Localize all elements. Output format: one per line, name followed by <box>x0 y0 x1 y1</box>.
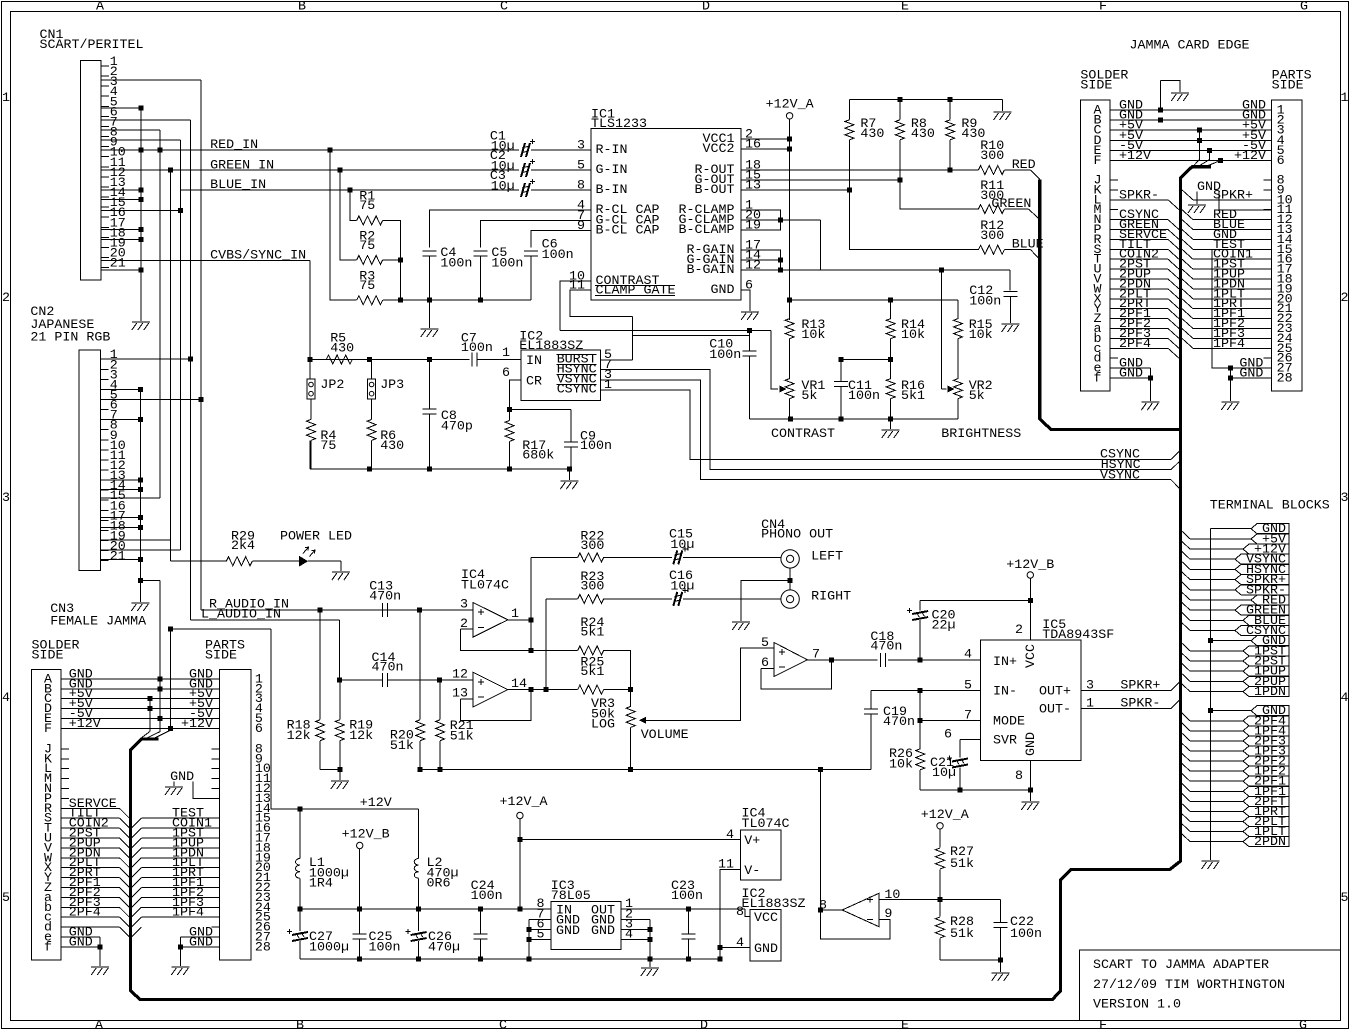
capacitor C7 <box>472 353 477 367</box>
connector CN3 parts side body <box>220 670 251 961</box>
wire +12V riser from CN3 <box>170 629 172 730</box>
wire B-OUT drop <box>849 190 978 250</box>
wire BLUE tap to R1 <box>350 190 357 220</box>
wire IC2 GND pin <box>720 947 750 949</box>
ground CN4 <box>732 622 750 630</box>
wire R2 to common <box>383 259 401 261</box>
wire C7 to IC2 pin1 <box>477 359 521 361</box>
svg-text:GND: GND <box>1024 732 1039 756</box>
wire C21 bottom <box>959 768 961 791</box>
svg-text:51k: 51k <box>390 739 414 754</box>
op-amp IC4C <box>774 643 807 677</box>
svg-text:CR: CR <box>526 375 542 390</box>
svg-text:9: 9 <box>577 219 585 234</box>
svg-text:GND: GND <box>711 283 735 298</box>
svg-text:3: 3 <box>1341 491 1349 506</box>
wire JAMMA row T COIN2 <box>1110 258 1168 260</box>
svg-text:E: E <box>901 1018 909 1030</box>
wire CN1 pin7 <box>101 129 160 131</box>
wire C20 bottom <box>919 620 921 660</box>
wire C19 IN- row <box>871 690 980 692</box>
wire JAMMA row C/3 +5V <box>1110 129 1271 131</box>
wire clamp-cap common row <box>383 299 531 301</box>
wire CN3 row T COIN2 <box>61 827 119 829</box>
wire C18 to IN+ <box>888 659 980 661</box>
svg-text:300: 300 <box>980 149 1004 164</box>
terminal block VSYNC <box>1235 554 1289 564</box>
resistor R20 <box>419 610 421 720</box>
inductor L2 <box>414 859 419 879</box>
wire JAMMA row W 2PDN <box>1110 288 1168 290</box>
wire IC4A feedback <box>460 629 531 650</box>
wire R16 bottom <box>890 398 892 419</box>
svg-text:TLS1233: TLS1233 <box>591 117 647 132</box>
wire JAMMA row Y 2PRT <box>1110 308 1168 310</box>
wire JAMMA row 1PF3 <box>1182 329 1193 339</box>
wire C14 row <box>340 679 383 681</box>
svg-text:B-OUT: B-OUT <box>695 183 735 198</box>
capacitor C9 <box>570 410 572 442</box>
terminal block 1PLT <box>1243 827 1289 837</box>
ground CN2 bus <box>131 603 149 611</box>
wire C4 bottom <box>429 256 431 300</box>
svg-text:5k1: 5k1 <box>580 626 604 641</box>
wire R-CLAMP tie <box>741 210 780 230</box>
capacitor C26 <box>418 909 420 931</box>
capacitor C13 <box>382 603 387 617</box>
svg-text:1: 1 <box>502 346 510 361</box>
svg-text:100n: 100n <box>969 295 1001 310</box>
wire CN3 row f GND <box>61 946 100 948</box>
wire JAMMA +5V tie <box>1199 130 1201 159</box>
JAMMA stub rows parts side <box>1264 179 1272 181</box>
wire contrast bottom rail <box>749 418 958 420</box>
svg-text:470n: 470n <box>369 590 401 605</box>
wire CN3 row 15 TEST <box>132 818 142 828</box>
capacitor C22 <box>1000 899 1002 922</box>
potentiometer VR1 <box>785 379 794 399</box>
wire audio bias rail <box>420 769 871 771</box>
wire CN1 pin6 audio-L <box>101 119 191 121</box>
terminal block SPKR+ <box>1235 575 1289 585</box>
svg-text:SVR: SVR <box>993 733 1017 748</box>
wire IC3 right gnd pins <box>621 918 650 920</box>
wire JAMMA row 1PUP <box>1182 269 1193 279</box>
wire L2 bottom <box>418 878 420 909</box>
wire CN2 pin1 to audio-R bus <box>101 358 191 360</box>
wire JAMMA row F/6 +12V <box>1110 160 1271 162</box>
wire CN3 row Y 2PRT <box>61 877 119 879</box>
wire +12V_A to IC4 V+ <box>520 839 740 841</box>
svg-text:C: C <box>500 0 508 15</box>
JAMMA stub rows solder side <box>1110 179 1118 181</box>
svg-text:100n: 100n <box>491 257 523 272</box>
svg-text:680k: 680k <box>522 449 554 464</box>
wire B-OUT row <box>741 189 849 191</box>
terminal block 1PUP <box>1243 666 1289 676</box>
svg-text:4: 4 <box>2 691 10 706</box>
svg-text:3: 3 <box>1086 679 1094 694</box>
wire IC2 CR pin <box>510 380 521 410</box>
svg-text:430: 430 <box>860 127 884 142</box>
wire OUT+ SPKR+ <box>1081 690 1171 692</box>
svg-text:1PDN: 1PDN <box>1254 685 1286 700</box>
svg-text:21: 21 <box>110 550 126 565</box>
wire JAMMA row B/2 GND <box>1110 119 1271 121</box>
svg-text:B-GAIN: B-GAIN <box>687 263 735 278</box>
wire R6 to gnd rail <box>371 440 373 468</box>
svg-text:28: 28 <box>1277 372 1293 387</box>
wire JAMMA row GND <box>1182 230 1193 240</box>
wire CN3 loom diagonals <box>140 730 171 739</box>
svg-text:4: 4 <box>736 936 744 951</box>
svg-text:F: F <box>1099 1018 1107 1030</box>
wire C3 to IC1 pin8 <box>531 189 591 191</box>
wire IC1 pin4 R-CL CAP to C4 <box>430 210 591 247</box>
svg-text:f: f <box>1094 372 1102 387</box>
svg-text:27/12/09 TIM WORTHINGTON: 27/12/09 TIM WORTHINGTON <box>1093 978 1285 993</box>
wire CN3 solder gnd drop <box>99 937 101 966</box>
svg-text:SIDE: SIDE <box>205 649 237 664</box>
wire CN3 row C/3 +5V <box>61 698 219 700</box>
resistor R5 <box>326 355 352 364</box>
capacitor C14 <box>382 673 387 687</box>
svg-text:12k: 12k <box>349 729 373 744</box>
wire +12V_A vertical <box>789 119 791 320</box>
svg-text:5: 5 <box>577 159 585 174</box>
capacitor C5 <box>474 251 488 256</box>
svg-text:RED: RED <box>1012 158 1036 173</box>
wire VR3 wiper to opamp3 <box>646 648 774 720</box>
wire audio-L vertical <box>190 120 192 620</box>
ground JAMMA parts side <box>1221 402 1239 410</box>
wire R28 C22 gnd <box>940 959 1001 961</box>
capacitor C10 <box>742 351 756 356</box>
svg-text:GND: GND <box>1119 367 1143 382</box>
svg-text:1PF4: 1PF4 <box>1213 337 1245 352</box>
svg-text:1PF4: 1PF4 <box>172 906 204 921</box>
capacitor C8 <box>422 409 436 414</box>
svg-text:51k: 51k <box>950 927 974 942</box>
wire JAMMA row 1PRT <box>1182 299 1193 309</box>
svg-text:4: 4 <box>1341 691 1349 706</box>
svg-text:100n: 100n <box>542 248 574 263</box>
wire L1 bottom <box>299 878 301 909</box>
wire terminal VSYNC <box>1181 550 1190 559</box>
svg-text:13: 13 <box>745 179 761 194</box>
wire terminal 1PST <box>1181 642 1190 651</box>
svg-text:4: 4 <box>726 828 734 843</box>
svg-text:21: 21 <box>110 257 126 272</box>
svg-text:3: 3 <box>2 491 10 506</box>
connector JAMMA solder side body <box>1080 100 1110 391</box>
potentiometer VR2 <box>954 379 963 399</box>
wire terminal 1PLT <box>1181 823 1190 832</box>
svg-text:GND: GND <box>754 942 778 957</box>
terminal block 2PF2 <box>1243 756 1289 766</box>
resistor R2 <box>357 255 383 264</box>
svg-text:10k: 10k <box>801 328 825 343</box>
wire CN3 row B/2 GND <box>61 688 219 690</box>
power node +12V_A r27 <box>937 823 943 829</box>
connector CN4 LEFT phono <box>781 550 799 568</box>
ground JAMMA solder side <box>1141 402 1159 410</box>
wire JAMMA row R SERVCE <box>1110 238 1168 240</box>
resistor R25 <box>578 685 604 694</box>
wire JAMMA solder gnd drop <box>1149 368 1151 401</box>
resistor R11 <box>978 205 1004 214</box>
wire CN3 row Z 2PF1 <box>61 887 119 889</box>
wire gnd stem brightness <box>890 419 892 429</box>
svg-text:RED_IN: RED_IN <box>210 138 258 153</box>
ground R18 R19 <box>339 770 341 780</box>
terminal block GND <box>1251 524 1289 534</box>
wire OUT to IC2 VCC <box>745 909 750 917</box>
wire terminal gnd bus <box>1210 529 1212 860</box>
wire CVBS/SYNC_IN <box>101 260 310 262</box>
svg-text:VCC: VCC <box>754 911 778 926</box>
svg-text:300: 300 <box>580 580 604 595</box>
terminal block 2PUP <box>1243 676 1289 686</box>
svg-text:6: 6 <box>745 279 753 294</box>
wire G-GAIN row <box>741 259 780 261</box>
wire CN3 parts row27 GND <box>180 936 219 938</box>
wire IC4D feedback <box>820 910 890 939</box>
wire CN3 row X 2PLT <box>61 867 119 869</box>
svg-text:R-IN: R-IN <box>596 143 628 158</box>
ground terminal blocks <box>1202 861 1220 869</box>
resistor R7 <box>848 100 850 120</box>
svg-text:GND: GND <box>1239 367 1263 382</box>
wire terminal +5V <box>1181 530 1190 539</box>
wire CN3 row 18 1PUP <box>132 848 142 858</box>
svg-text:75: 75 <box>359 239 375 254</box>
wire B-GAIN row to brightness <box>741 269 1010 271</box>
ground CN3 solder side <box>91 967 109 975</box>
wire C1 to IC1 pin3 <box>531 149 591 151</box>
svg-text:JAMMA CARD EDGE: JAMMA CARD EDGE <box>1130 39 1250 54</box>
wire terminal 1PF1 <box>1181 782 1190 791</box>
svg-text:GREEN_IN: GREEN_IN <box>210 158 274 173</box>
connector CN1 body <box>80 60 100 280</box>
wire terminal +12V <box>1181 540 1190 549</box>
svg-text:100n: 100n <box>580 439 612 454</box>
svg-text:3: 3 <box>577 139 585 154</box>
svg-text:E: E <box>901 0 909 15</box>
wire JAMMA mid gnd bracket <box>1197 192 1272 210</box>
svg-text:22µ: 22µ <box>932 619 956 634</box>
wire JP3 to R6 <box>371 399 373 419</box>
svg-text:IN: IN <box>526 354 542 369</box>
svg-text:VSYNC: VSYNC <box>1100 468 1140 483</box>
svg-text:470n: 470n <box>870 640 902 655</box>
IC IC5 body <box>980 640 1081 761</box>
terminal block +12V <box>1243 544 1289 554</box>
wire terminal 1PF4 <box>1181 722 1190 731</box>
svg-text:470n: 470n <box>883 715 915 730</box>
wire CN1 pin15 <box>101 210 181 212</box>
wire R29 row <box>171 560 227 562</box>
wire JAMMA row e GND <box>1110 367 1150 369</box>
wire CN3 row 21 1PRT <box>132 878 142 888</box>
svg-text:MODE: MODE <box>993 715 1025 730</box>
wire CN3 row 16 COIN1 <box>132 828 142 838</box>
wire JAMMA parts row28 GND <box>1230 377 1271 379</box>
svg-text:A: A <box>96 0 104 15</box>
ground top rail <box>994 112 1012 120</box>
svg-text:GND: GND <box>1197 180 1221 195</box>
svg-text:SPKR-: SPKR- <box>1120 697 1160 712</box>
wire R4 gnd rail left end <box>309 440 311 468</box>
wire C10 bottom <box>748 357 750 420</box>
wire CN3 row W 2PDN <box>61 857 119 859</box>
svg-text:300: 300 <box>580 539 604 554</box>
wire R29 to LED <box>252 560 299 562</box>
IC IC2 power pins body <box>750 910 781 962</box>
op-amp IC4A <box>473 603 508 638</box>
wire CONTRAST wire to VR1 <box>560 329 771 331</box>
svg-text:16: 16 <box>745 138 761 153</box>
terminal block 1PRT <box>1243 806 1289 816</box>
wire CN3 row S TILT <box>61 817 119 819</box>
svg-text:+12V_A: +12V_A <box>921 808 969 823</box>
wire GREEN_IN <box>101 169 519 171</box>
wire JAMMA TEST bracket <box>1212 249 1230 368</box>
terminal block GND <box>1251 706 1289 716</box>
wire JAMMA parts row27 GND <box>1230 367 1271 369</box>
ground C12 <box>1002 324 1020 332</box>
svg-text:12k: 12k <box>287 729 311 744</box>
svg-text:0R6: 0R6 <box>427 877 451 892</box>
wire IC1 VCC1 <box>741 138 790 140</box>
wire terminal 1PUP <box>1181 662 1190 671</box>
wire terminal 2PF1 <box>1181 772 1190 781</box>
svg-text:JP3: JP3 <box>380 378 404 393</box>
svg-text:430: 430 <box>911 127 935 142</box>
wire audio-R vertical <box>200 80 202 610</box>
wire CN1 pin8 <box>101 139 181 141</box>
diode LED D1 <box>299 556 308 567</box>
terminal block 1PF3 <box>1243 746 1289 756</box>
svg-text:19: 19 <box>745 219 761 234</box>
capacitor C18 <box>880 653 885 667</box>
svg-text:B-CL CAP: B-CL CAP <box>596 223 660 238</box>
ground IC3 <box>641 968 659 976</box>
capacitor C4 <box>423 251 437 256</box>
svg-text:FEMALE JAMMA: FEMALE JAMMA <box>50 615 146 630</box>
wire bias node vertical <box>819 770 821 910</box>
wire RED_IN <box>101 149 519 151</box>
terminal block 1PF4 <box>1243 726 1289 736</box>
svg-text:1: 1 <box>1341 91 1349 106</box>
wire JAMMA row f GND <box>1110 377 1150 379</box>
terminal block HSYNC <box>1235 564 1289 574</box>
svg-text:G: G <box>1299 1018 1307 1030</box>
svg-text:SCART TO JAMMA ADAPTER: SCART TO JAMMA ADAPTER <box>1093 958 1269 973</box>
wire JAMMA -5V tail <box>1209 150 1211 159</box>
wire CN3 row 24 1PF3 <box>132 907 142 917</box>
ground CN3 parts side <box>171 967 189 975</box>
op-amp IC4D (reversed) <box>842 893 879 926</box>
wire R22 row left <box>531 556 578 558</box>
wire CR node row <box>510 409 571 411</box>
svg-text:2k4: 2k4 <box>231 539 255 554</box>
svg-text:10k: 10k <box>969 328 993 343</box>
wire C12 to ground <box>1010 297 1012 324</box>
wire C5 bottom <box>480 256 482 300</box>
svg-text:F: F <box>1099 0 1107 15</box>
resistor R3 <box>357 296 383 305</box>
wire IC1 pin11 CLAMP GATE <box>570 290 632 317</box>
wire terminal 2PDN <box>1181 833 1190 842</box>
potentiometer VR2 wiper arrow <box>948 386 955 393</box>
wire L_AUDIO_IN <box>191 619 340 621</box>
svg-text:D: D <box>702 0 710 15</box>
connector CN2 body <box>79 350 101 571</box>
svg-text:B-IN: B-IN <box>596 183 628 198</box>
ground IC1 <box>741 312 759 320</box>
svg-text:POWER LED: POWER LED <box>280 530 352 545</box>
resistor R14 <box>890 300 892 319</box>
resistor R9 <box>949 100 951 120</box>
terminal block CSYNC <box>1235 626 1289 636</box>
connector CN4 RIGHT phono <box>781 590 799 608</box>
wire C8 column <box>428 360 430 409</box>
svg-text:TL074C: TL074C <box>461 579 509 594</box>
wire IC4B output row <box>508 689 578 691</box>
wire G-CLAMP row <box>741 219 821 221</box>
wire SVR row <box>960 738 980 740</box>
wire GREEN to loom <box>1004 208 1028 210</box>
svg-text:100n: 100n <box>471 889 503 904</box>
wire R1 to common <box>383 220 401 260</box>
resistor R13 <box>789 300 791 319</box>
wire JAMMA parts gnd drop <box>1229 368 1231 401</box>
wire R25 to VR3 node <box>604 689 631 691</box>
wire G-OUT row <box>741 179 900 181</box>
wire IC1 pin10 CONTRAST <box>560 281 591 331</box>
svg-text:2: 2 <box>2 291 10 306</box>
wire gnd bus jog to CN3 <box>138 578 143 583</box>
svg-text:5: 5 <box>1341 891 1349 906</box>
svg-text:51k: 51k <box>950 857 974 872</box>
wire psu gnd rail <box>300 958 720 960</box>
wire +12V_A rail to R14 R15 <box>790 299 958 301</box>
svg-text:100n: 100n <box>440 257 472 272</box>
wire C11 top <box>840 360 842 382</box>
wire CN3 d-row diagonal <box>61 926 119 928</box>
wire JAMMA row V 2PUP <box>1110 278 1168 280</box>
capacitor C12 <box>1004 292 1018 297</box>
wire terminal 2PF3 <box>1181 732 1190 741</box>
power node +12V_B bottom <box>357 842 363 848</box>
wire CN3 row 25 1PF4 <box>132 917 142 927</box>
capacitor C16 <box>673 592 682 606</box>
svg-text:+12V_B: +12V_B <box>1006 558 1054 573</box>
ground JAMMA chassis <box>1171 93 1189 101</box>
wire terminal 1PF2 <box>1181 762 1190 771</box>
wire R24 left <box>531 649 578 651</box>
resistor R18 <box>319 610 321 720</box>
svg-text:100n: 100n <box>369 941 401 956</box>
IC IC3 body <box>551 901 621 949</box>
wire CN2 pin13 to gnd bus <box>101 479 141 481</box>
connector JAMMA parts side body <box>1272 100 1302 391</box>
wire IC4D output <box>820 909 842 911</box>
svg-text:SPKR+: SPKR+ <box>1120 679 1160 694</box>
svg-text:f: f <box>44 940 52 955</box>
wire JAMMA row N CSYNC <box>1110 219 1168 221</box>
